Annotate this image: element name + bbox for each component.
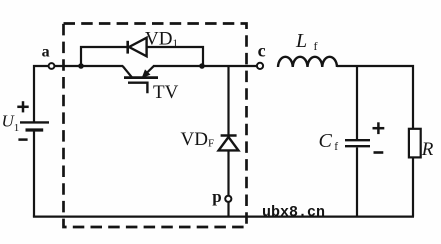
wire: freewheel diode VDF branch (vertical)	[227, 66, 229, 217]
svg-text:VD: VD	[145, 29, 172, 50]
inductor Lf coil	[278, 57, 337, 67]
capacitor minus sign	[374, 151, 384, 154]
svg-text:F: F	[208, 137, 214, 149]
svg-text:f: f	[334, 141, 338, 153]
capacitor plus sign	[373, 122, 385, 134]
svg-text:c: c	[258, 40, 266, 60]
battery minus sign	[18, 138, 27, 141]
node c terminal circle	[257, 63, 263, 69]
resistor R (load)	[409, 129, 421, 158]
svg-text:R: R	[421, 139, 434, 160]
capacitor Cf plates	[345, 140, 370, 146]
diode VDF (freewheeling, pointing up)	[219, 136, 239, 151]
diode VD1 (anti-parallel, pointing left)	[128, 38, 147, 57]
label p	[212, 187, 221, 206]
wire: top rail from coil to top-right corner and down right side	[337, 66, 413, 217]
wire: freewheel diode branch loop for VD1	[81, 47, 203, 66]
svg-text:1: 1	[173, 38, 179, 50]
label Cf	[319, 130, 339, 153]
svg-text:L: L	[295, 30, 307, 52]
label a	[42, 43, 50, 60]
battery U1	[20, 122, 49, 130]
label VD1	[145, 29, 178, 50]
junction dot at diode branch left	[78, 63, 84, 69]
label Lf	[295, 30, 318, 53]
svg-text:f: f	[314, 39, 318, 53]
svg-text:C: C	[319, 130, 333, 152]
label VDF	[181, 129, 215, 150]
wire: capacitor branch (vertical)	[356, 66, 358, 217]
svg-text:ubx8.cn: ubx8.cn	[262, 204, 325, 221]
node p terminal circle	[225, 196, 231, 202]
node a terminal circle	[49, 63, 55, 69]
battery plus sign	[17, 101, 28, 112]
label TV	[153, 82, 179, 103]
watermark ubx8.cn	[262, 204, 325, 221]
wire: battery bottom lead down to bottom-left corner	[33, 130, 35, 217]
svg-text:VD: VD	[181, 129, 208, 150]
junction dot at diode branch right	[199, 63, 205, 69]
label U1	[2, 112, 20, 135]
transistor TV (power switch symbol)	[123, 66, 158, 93]
label R	[421, 139, 434, 160]
wire: top rail from node a to transistor collector	[54, 65, 123, 67]
svg-text:TV: TV	[153, 82, 179, 103]
svg-text:p: p	[212, 187, 221, 206]
svg-text:a: a	[42, 43, 50, 60]
wire: top rail from transistor emitter to node c	[153, 65, 257, 67]
dashed enclosure box	[64, 24, 247, 228]
label c	[258, 40, 266, 60]
svg-text:1: 1	[14, 122, 19, 134]
wire: bottom rail	[33, 216, 414, 218]
wire: left branch (battery top lead, top-left rail to node a)	[34, 66, 49, 122]
